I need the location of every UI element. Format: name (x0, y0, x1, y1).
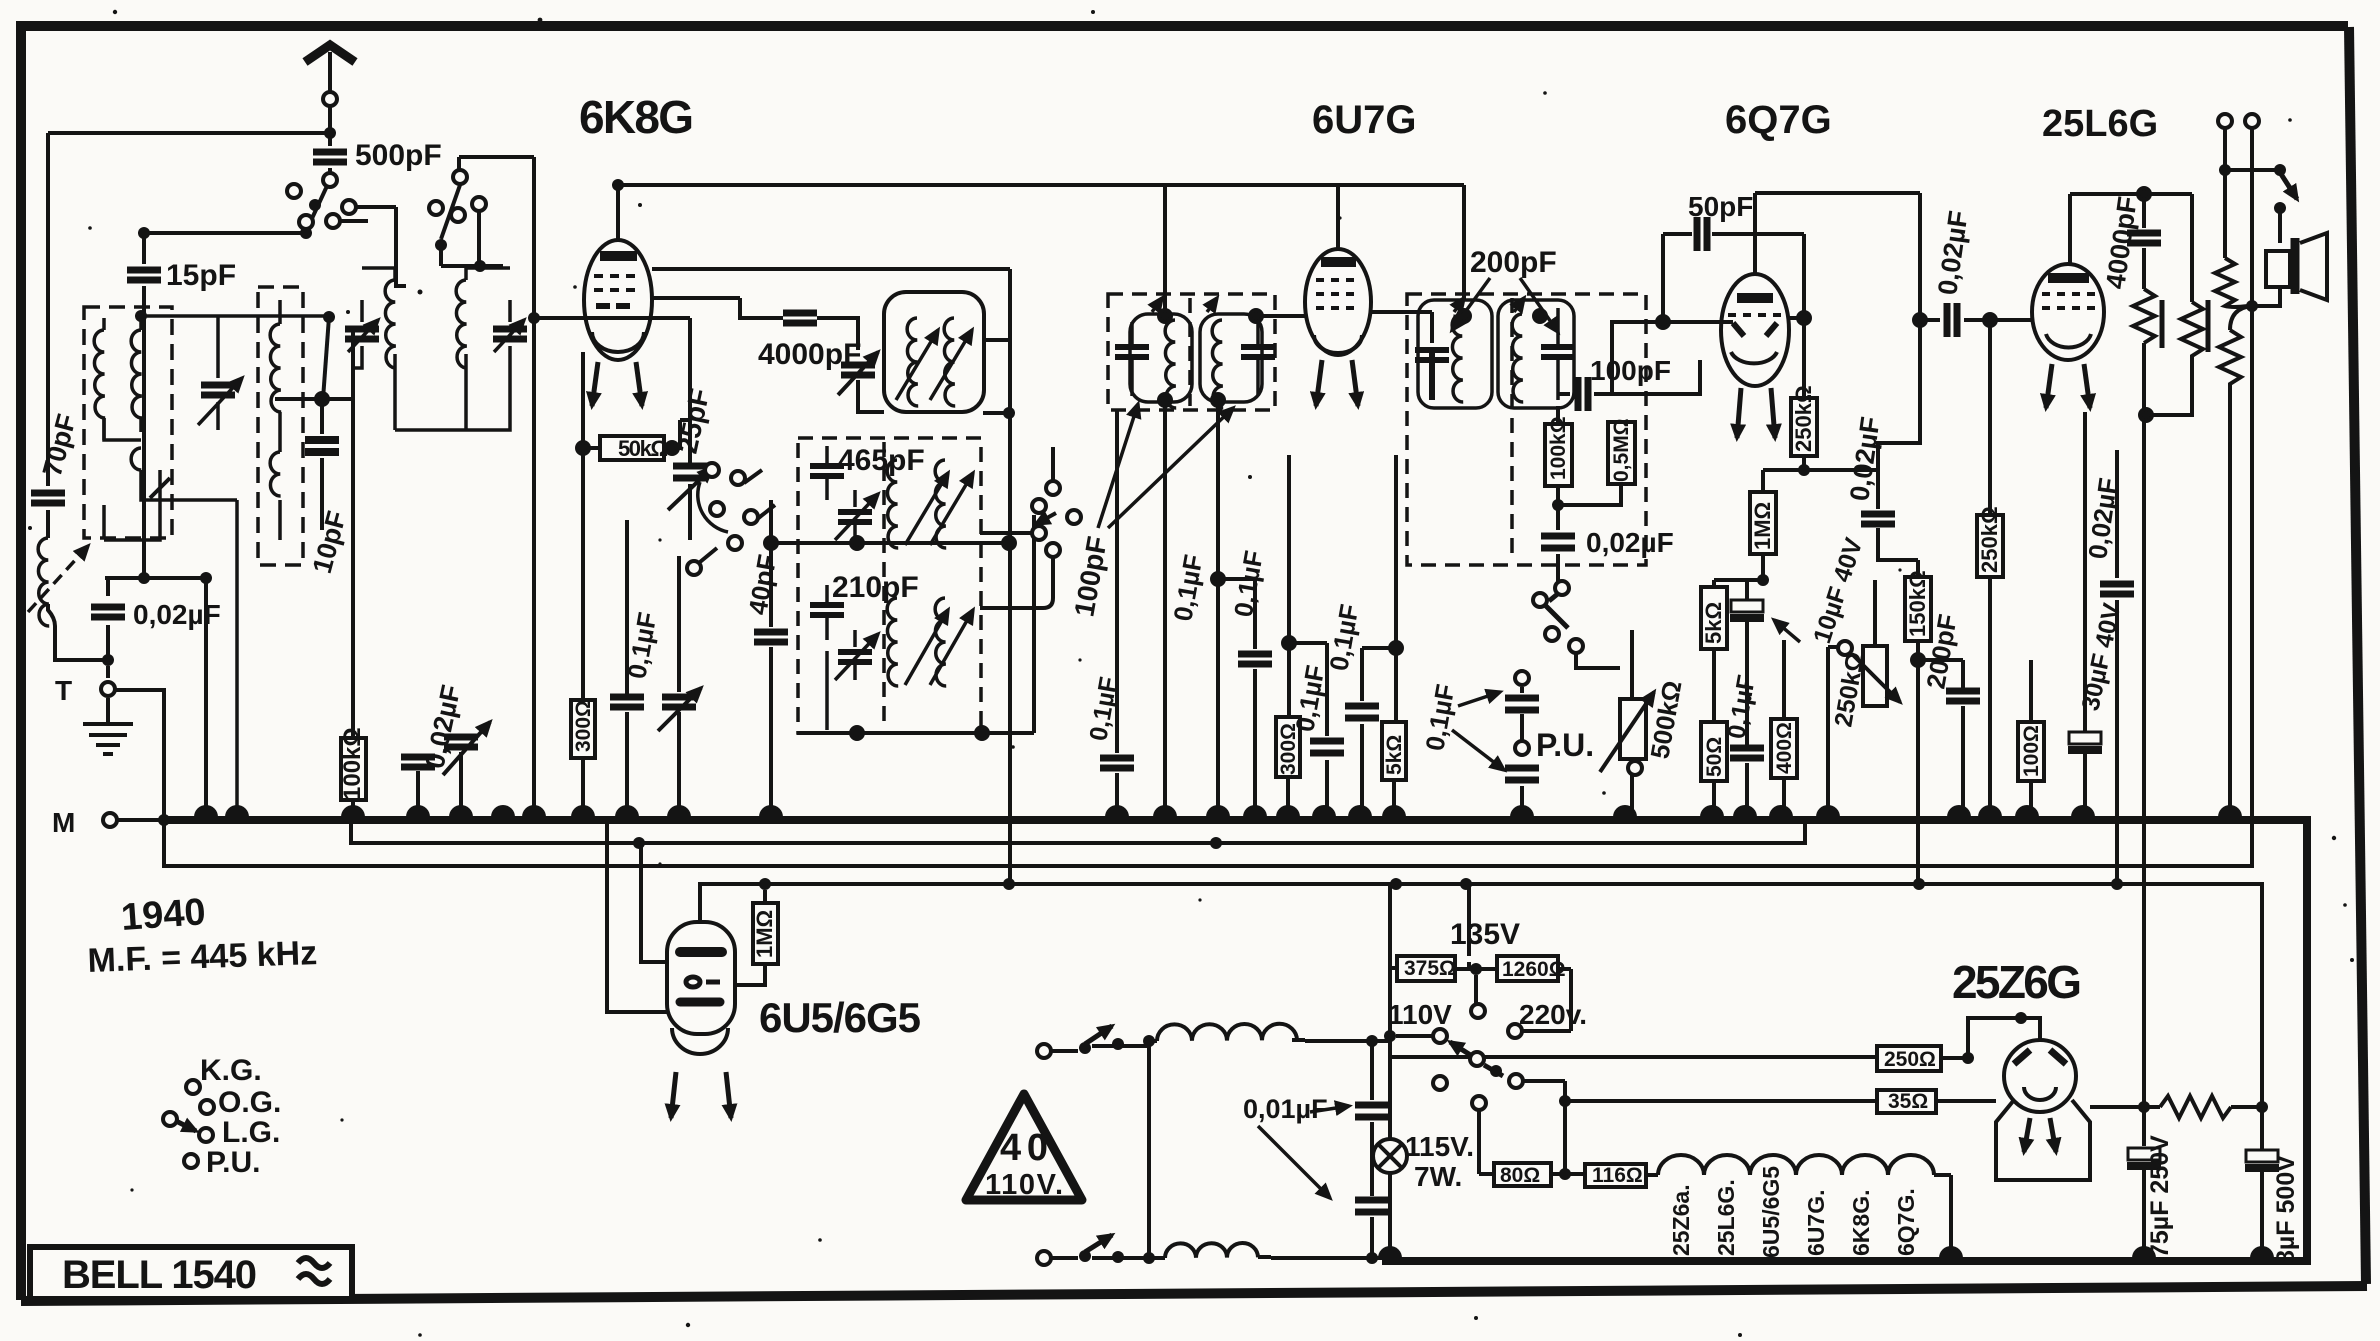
svg-text:100pF: 100pF (1590, 355, 1671, 386)
svg-text:1940: 1940 (120, 891, 207, 939)
svg-text:50Ω: 50Ω (1703, 737, 1726, 777)
svg-text:500pF: 500pF (355, 139, 442, 172)
svg-text:220v.: 220v. (1519, 999, 1587, 1030)
svg-text:1260Ω: 1260Ω (1502, 958, 1566, 981)
svg-text:80Ω: 80Ω (1500, 1164, 1540, 1187)
svg-text:T: T (55, 675, 72, 706)
svg-text:75µF 250V: 75µF 250V (2146, 1135, 2174, 1258)
svg-text:100kΩ: 100kΩ (339, 727, 366, 800)
svg-text:135V: 135V (1450, 918, 1520, 951)
svg-text:6K8G: 6K8G (579, 91, 694, 143)
svg-text:6U5/6G5: 6U5/6G5 (1758, 1166, 1784, 1258)
svg-text:465pF: 465pF (838, 444, 925, 477)
svg-text:8µF 500V: 8µF 500V (2272, 1155, 2300, 1264)
svg-text:110V: 110V (1388, 999, 1452, 1030)
svg-text:6K8G.: 6K8G. (1848, 1190, 1874, 1256)
svg-text:0,02µF: 0,02µF (133, 599, 221, 630)
svg-text:BELL 1540: BELL 1540 (62, 1253, 257, 1297)
svg-text:110V.: 110V. (985, 1169, 1063, 1201)
svg-text:P.U.: P.U. (206, 1146, 260, 1179)
svg-text:300Ω: 300Ω (572, 700, 595, 752)
svg-text:150kΩ: 150kΩ (1905, 570, 1930, 637)
svg-text:250kΩ: 250kΩ (1791, 385, 1816, 452)
svg-text:O.G.: O.G. (218, 1086, 281, 1119)
svg-text:0,02µF: 0,02µF (1586, 527, 1674, 558)
svg-text:250Ω: 250Ω (1884, 1048, 1936, 1071)
svg-text:4000pF: 4000pF (758, 338, 861, 371)
svg-text:6U7G.: 6U7G. (1803, 1190, 1829, 1256)
svg-text:6Q7G: 6Q7G (1725, 98, 1832, 142)
svg-text:K.G.: K.G. (200, 1054, 262, 1087)
svg-text:M.F. = 445 kHz: M.F. = 445 kHz (87, 934, 318, 980)
svg-text:100Ω: 100Ω (2020, 725, 2043, 777)
svg-text:5kΩ: 5kΩ (1383, 735, 1406, 775)
svg-text:50kΩ: 50kΩ (618, 436, 668, 461)
svg-text:25Z6G: 25Z6G (1952, 956, 2082, 1008)
svg-text:5kΩ: 5kΩ (1701, 602, 1726, 644)
svg-text:M: M (52, 807, 75, 838)
svg-text:25L6G: 25L6G (2042, 103, 2158, 145)
svg-text:35Ω: 35Ω (1888, 1090, 1928, 1113)
svg-text:7W.: 7W. (1414, 1161, 1462, 1192)
svg-text:6Q7G.: 6Q7G. (1893, 1188, 1919, 1256)
svg-text:300Ω: 300Ω (1277, 723, 1300, 775)
svg-text:100kΩ: 100kΩ (1547, 416, 1570, 480)
svg-text:P.U.: P.U. (1536, 727, 1594, 763)
svg-text:6U5/6G5: 6U5/6G5 (759, 994, 921, 1041)
svg-text:116Ω: 116Ω (1592, 1164, 1643, 1187)
svg-text:1MΩ: 1MΩ (1750, 502, 1775, 550)
svg-text:400Ω: 400Ω (1773, 722, 1796, 774)
svg-text:250kΩ: 250kΩ (1977, 506, 2002, 573)
svg-text:0,01µF: 0,01µF (1243, 1094, 1328, 1124)
svg-text:375Ω: 375Ω (1404, 957, 1456, 980)
svg-text:0,5MΩ: 0,5MΩ (1610, 418, 1633, 482)
svg-text:115V.: 115V. (1405, 1131, 1474, 1162)
svg-text:25L6G.: 25L6G. (1713, 1179, 1739, 1256)
svg-text:L.G.: L.G. (222, 1116, 280, 1149)
svg-text:6U7G: 6U7G (1312, 98, 1417, 142)
svg-text:210pF: 210pF (832, 571, 919, 604)
svg-text:200pF: 200pF (1470, 246, 1557, 279)
svg-text:1MΩ: 1MΩ (752, 910, 777, 958)
svg-text:15pF: 15pF (166, 259, 236, 292)
svg-text:25Z6a.: 25Z6a. (1668, 1184, 1694, 1256)
